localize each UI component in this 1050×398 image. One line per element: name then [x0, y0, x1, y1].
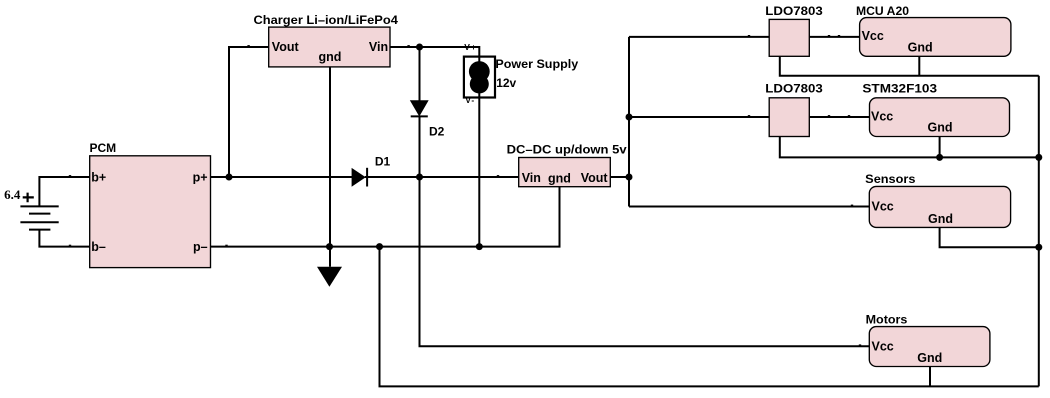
- svg-text:LDO7803: LDO7803: [765, 4, 823, 18]
- node junction STM gnd: [936, 154, 943, 161]
- MCU A20 U5: [856, 4, 1011, 56]
- Sensors U8: [865, 172, 1010, 227]
- wire charger gnd down: [329, 67, 331, 267]
- wire bus to LDO2: [629, 116, 769, 118]
- DC-DC converter U3: [507, 143, 627, 187]
- svg-text:MCU A20: MCU A20: [856, 4, 909, 18]
- wire LDO1 out: [809, 36, 859, 38]
- node junction p-/charger gnd: [326, 243, 333, 250]
- svg-text:STM32F103: STM32F103: [862, 82, 937, 96]
- svg-text:p+: p+: [193, 171, 208, 185]
- charger U2 Li-ion/LiFePo4: [254, 13, 399, 67]
- node junction p-/bottom rail: [376, 243, 383, 250]
- wire LDO2 gnd: [780, 137, 1039, 158]
- svg-text:Vcc: Vcc: [862, 29, 884, 43]
- svg-text:gnd: gnd: [319, 50, 342, 64]
- wire Sensors gnd: [940, 227, 1039, 247]
- svg-text:LDO7803: LDO7803: [765, 82, 823, 96]
- svg-text:PCM: PCM: [90, 141, 117, 155]
- wire charger Vout to p+: [229, 47, 269, 177]
- svg-text:V+: V+: [464, 42, 477, 52]
- node junction p+/D2 branch: [416, 174, 423, 181]
- svg-text:12v: 12v: [496, 76, 516, 90]
- svg-text:Charger Li–ion/LiFePo4: Charger Li–ion/LiFePo4: [254, 13, 399, 27]
- node junction bus/Vout: [626, 174, 633, 181]
- svg-text:Vout: Vout: [272, 40, 300, 54]
- wire STM gnd: [939, 137, 941, 158]
- svg-text:Vin: Vin: [522, 171, 541, 185]
- power supply J1 12v barrel jack: [464, 42, 579, 105]
- wire LDO2 out: [809, 116, 869, 118]
- svg-text:Vcc: Vcc: [872, 339, 894, 353]
- svg-text:gnd: gnd: [548, 172, 571, 186]
- wire right rail: [1038, 76, 1040, 387]
- LDO7803 U6: [765, 82, 823, 137]
- Motors U9: [866, 313, 990, 367]
- node junction p-/power supply: [476, 243, 483, 250]
- svg-text:Vcc: Vcc: [872, 199, 894, 213]
- wire p+ down to Motors Vcc: [420, 177, 870, 346]
- ground: [317, 267, 342, 287]
- wire power supply V- down to p- line: [478, 98, 480, 247]
- svg-text:Sensors: Sensors: [865, 172, 916, 186]
- wire battery/PCM p+ line: [211, 176, 353, 178]
- wire MCU gnd: [918, 56, 920, 76]
- svg-text:b+: b+: [91, 171, 106, 185]
- battery B1 6.4V: [4, 177, 90, 247]
- diode D2: [411, 47, 445, 177]
- LDO7803 U4: [765, 4, 823, 56]
- wire 5v bus vertical: [628, 37, 630, 207]
- svg-text:D2: D2: [429, 125, 445, 139]
- wire bus to Sensors Vcc: [629, 206, 869, 208]
- wire Motors gnd: [929, 367, 931, 387]
- wire p- line: [211, 187, 560, 247]
- svg-text:D1: D1: [375, 155, 391, 169]
- node junction bus/row2: [626, 114, 633, 121]
- svg-text:Power Supply: Power Supply: [495, 57, 578, 71]
- STM32F103 U7: [862, 82, 1009, 137]
- PCM U1: [90, 141, 211, 268]
- node junction p+/charger-vout: [226, 174, 233, 181]
- wire D1 cathode to DC-DC Vin: [365, 176, 519, 178]
- node junction Vin/D2: [416, 44, 423, 51]
- svg-text:V-: V-: [465, 95, 475, 105]
- svg-text:Motors: Motors: [866, 313, 908, 327]
- wire left rail down + bottom rail: [380, 247, 1039, 387]
- svg-text:6.4: 6.4: [4, 187, 21, 202]
- svg-text:Gnd: Gnd: [928, 121, 953, 135]
- wire DC-DC Vout to bus: [610, 176, 629, 178]
- diode D1: [352, 155, 390, 187]
- svg-text:Vout: Vout: [581, 171, 609, 185]
- node junction right rail sensors gnd: [1035, 244, 1042, 251]
- wire charger Vin to power supply: [390, 47, 479, 57]
- svg-text:DC–DC up/down 5v: DC–DC up/down 5v: [507, 143, 627, 157]
- node junction right rail row2: [1035, 154, 1042, 161]
- svg-text:p–: p–: [193, 240, 208, 254]
- svg-text:Vin: Vin: [369, 40, 388, 54]
- svg-text:Gnd: Gnd: [917, 351, 942, 365]
- svg-text:Gnd: Gnd: [908, 40, 933, 54]
- wire bus to LDO1: [629, 36, 769, 38]
- svg-text:Vcc: Vcc: [871, 110, 893, 124]
- wire endpoint ticks: [69, 35, 861, 346]
- wire LDO1 gnd: [780, 56, 1039, 76]
- svg-text:b–: b–: [91, 240, 106, 254]
- svg-text:Gnd: Gnd: [928, 212, 953, 226]
